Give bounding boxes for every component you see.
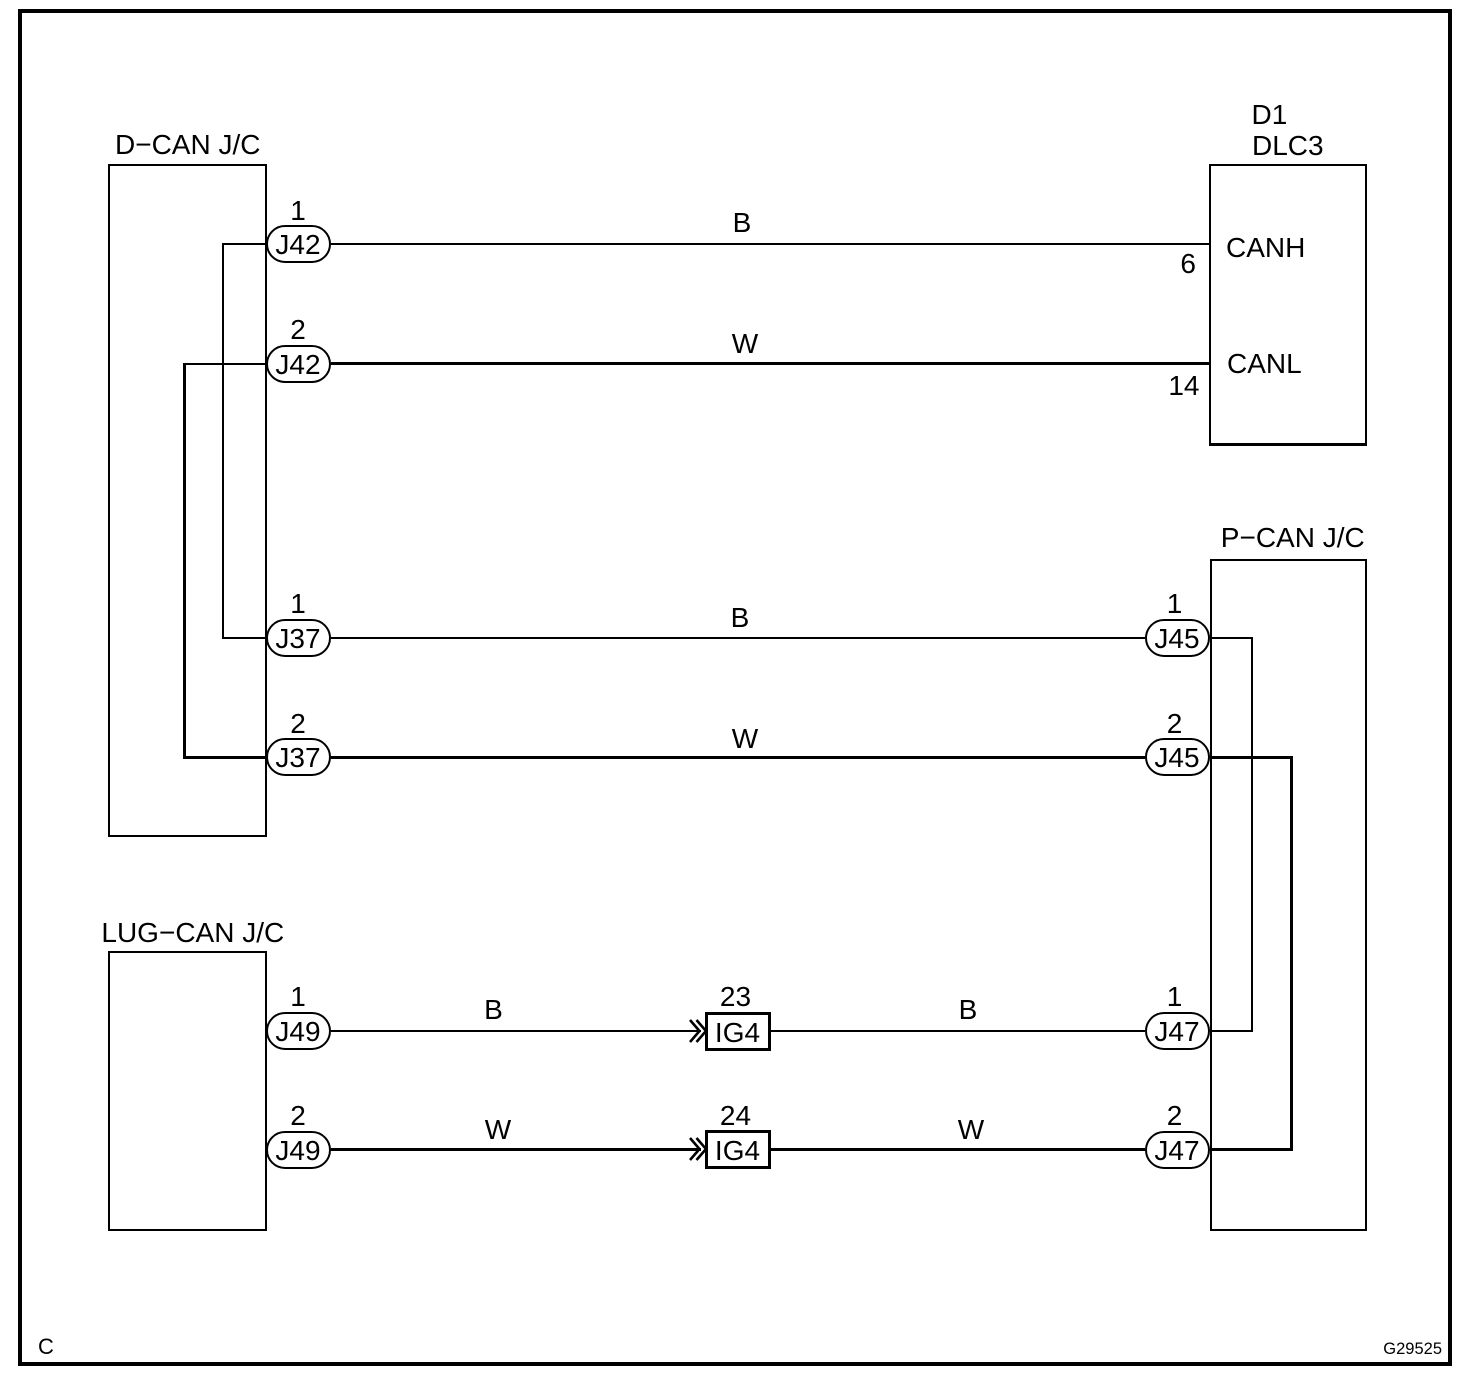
junction block P-CAN J/C label [1221,524,1365,552]
pin number 2 (J42-2) [268,316,328,344]
junction block LUG-CAN J/C box [108,951,267,1232]
wire W row2 J42-2 to CANL [331,362,1210,365]
wire vertical B inside D-CAN [222,243,224,639]
wire vertical W inside P-CAN [1290,756,1293,1152]
splice chevron row6 [689,1137,707,1161]
wire W row6 IG4 to J47-2 [770,1148,1145,1151]
wire label W row6 left [468,1116,528,1144]
pin number 2 (J45-2) [1145,710,1205,738]
pin number 1 (J49-1) [268,983,328,1011]
splice chevron row5 [689,1019,707,1043]
pin number 2 (J49-2) [268,1102,328,1130]
wire stub row4 inside P-CAN [1210,756,1293,759]
junction block LUG-CAN J/C label [101,919,284,947]
connector J49 pin 1 [266,1012,331,1050]
pin number 23 (IG4) [706,983,766,1011]
connector D1 DLC3 label [1252,101,1288,129]
connector J45 pin 1 [1145,619,1210,657]
figure number G29525 [1322,1341,1442,1358]
wire B row1 J42-1 to CANH [331,243,1210,245]
wire label W row2 [715,330,775,358]
connector IG4 pin 24 [705,1130,771,1169]
wire B row5 IG4 to J47-1 [770,1030,1145,1032]
wire B row3 J37-1 to J45-1 [331,637,1145,639]
wire vertical W inside D-CAN [183,363,186,760]
wire stub row6 inside P-CAN [1210,1148,1293,1151]
wire vertical B inside P-CAN [1251,637,1253,1032]
wire stub row1 inside D-CAN [222,243,267,245]
connector J42 pin 2 [266,345,331,383]
junction block D-CAN J/C box [108,164,267,837]
pin number 1 (J37-1) [268,590,328,618]
wire stub row3 inside D-CAN [222,637,267,639]
wire label W row6 right [941,1116,1001,1144]
pin number 24 (IG4) [706,1102,766,1130]
pin number 2 (J37-2) [268,710,328,738]
wire W row6 J49-2 to IG4 [331,1148,702,1151]
connector J37 pin 2 [266,738,331,776]
wire label B row5 right [938,996,998,1024]
connector J45 pin 2 [1145,738,1210,776]
pin number 6 [1136,250,1196,278]
pin number 1 (J45-1) [1145,590,1205,618]
wire W row4 J37-2 to J45-2 [331,756,1145,759]
page letter C [38,1336,54,1358]
wire label W row4 [715,725,775,753]
wire label B row1 [712,209,772,237]
connector J47 pin 2 [1145,1131,1210,1169]
wire stub row3 inside P-CAN [1210,637,1253,639]
wire stub row5 inside P-CAN [1210,1030,1253,1032]
junction block D-CAN J/C label [115,131,260,159]
connector D1 DLC3 box [1209,164,1368,446]
wire stub row4 inside D-CAN [183,756,267,759]
connector J37 pin 1 [266,619,331,657]
connector J42 pin 1 [266,225,331,263]
pin CANL label [1227,350,1302,378]
pin number 1 (J42-1) [268,197,328,225]
wire label B row3 [710,604,770,632]
connector J47 pin 1 [1145,1012,1210,1050]
pin number 14 [1140,372,1200,400]
pin number 2 (J47-2) [1145,1102,1205,1130]
wire B row5 J49-1 to IG4 [331,1030,702,1032]
connector IG4 pin 23 [705,1012,771,1051]
connector J49 pin 2 [266,1131,331,1169]
junction block P-CAN J/C box [1210,559,1367,1232]
wire stub row2 inside D-CAN [184,363,267,365]
pin CANH label [1226,234,1305,262]
wire label B row5 left [464,996,524,1024]
pin number 1 (J47-1) [1145,983,1205,1011]
